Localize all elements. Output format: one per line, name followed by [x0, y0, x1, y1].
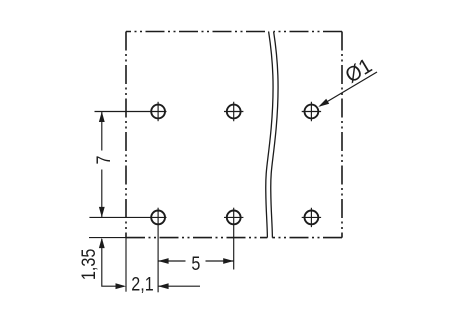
wire: left border — [125, 32, 127, 238]
wire: hole column B2 extended downward — [233, 208, 235, 270]
hole B3 bottom-right — [302, 208, 321, 227]
wire: top border left of break — [126, 31, 269, 33]
wire: top hole row extension (through A1) — [95, 111, 167, 113]
svg-text:1,35: 1,35 — [78, 249, 100, 281]
wire: bottom hole row extension (through B1) — [89, 216, 166, 218]
dimension 5 (horizontal, between hole columns) — [158, 260, 234, 262]
component outline (phantom dash-dot-dot border) — [126, 32, 342, 238]
break line left curve — [266, 32, 273, 238]
wire: bottom border extension to the left — [89, 237, 126, 239]
svg-text:5: 5 — [191, 253, 200, 275]
hole B2 bottom-middle — [224, 211, 243, 225]
dimension 1,35 (vertical, below left) — [102, 239, 124, 286]
hole A3 top-right — [302, 102, 321, 121]
svg-text:Ø1: Ø1 — [341, 54, 376, 88]
wire: bottom border right of break — [272, 237, 342, 239]
wire: right border — [341, 32, 343, 238]
extension lines — [89, 112, 234, 293]
break line right curve — [271, 32, 278, 238]
svg-text:7: 7 — [93, 156, 115, 165]
hole B1 bottom-left — [151, 211, 165, 225]
hole A1 top-left — [151, 102, 165, 121]
svg-text:2,1: 2,1 — [131, 273, 153, 295]
hole A2 top-middle — [224, 102, 243, 121]
leader and label for hole diameter Ø1 — [320, 72, 377, 106]
dimension 7 (vertical, left) — [101, 112, 103, 218]
wire: left border extended downward — [125, 238, 127, 292]
wire: hole column B1 extended downward — [157, 208, 159, 293]
dimension 2,1 (horizontal, bottom) — [116, 283, 127, 289]
wire: bottom border left of break — [126, 237, 267, 239]
wire: top border right of break — [274, 31, 342, 33]
